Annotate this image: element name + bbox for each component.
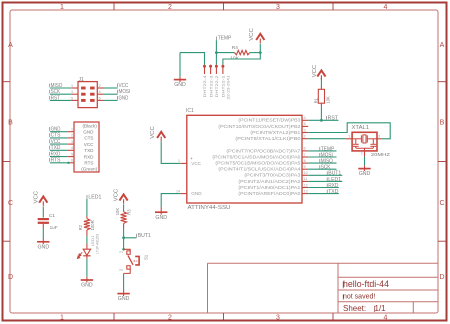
svg-text:R1: R1 [313,97,318,103]
svg-text:12: 12 [304,183,308,187]
svg-text:C1: C1 [49,213,55,219]
wire VCC to IC1 pin1 [161,141,180,163]
svg-text:VCC: VCC [191,161,201,166]
svg-text:BUT1: BUT1 [328,171,341,177]
svg-text:1: 1 [71,84,73,88]
svg-text:MOSI: MOSI [119,89,131,95]
IC1 right pin numbers [304,116,308,193]
svg-text:1: 1 [71,128,73,132]
svg-text:2: 2 [168,4,172,11]
svg-text:(Green): (Green) [81,166,97,171]
svg-text:1: 1 [348,135,350,139]
svg-text:TXD: TXD [51,145,61,151]
wire TEMP label to DHT22 pin2 [215,40,217,65]
wire SCK to J1 pin3 [50,93,72,95]
svg-text:(PCINT10/INT0/OC0A/CKOUT)PB2: (PCINT10/INT0/OC0A/CKOUT)PB2 [218,124,301,129]
wire R1 to VCC [320,86,322,89]
svg-text:C: C [439,200,444,207]
svg-text:7: 7 [304,153,306,157]
svg-text:DHT22-2: DHT22-2 [215,75,219,97]
svg-text:VCC: VCC [249,28,255,41]
svg-text:TEMP: TEMP [218,36,232,42]
svg-text:100R: 100R [90,220,95,230]
svg-text:(PCINT7/ICP/OC0B/ADC7)PA7: (PCINT7/ICP/OC0B/ADC7)PA7 [226,148,301,153]
crystal XTAL1 (resonator) [348,125,390,157]
svg-text:RTS: RTS [84,161,93,166]
wire RST to R1 [320,106,322,120]
svg-text:1: 1 [178,159,180,163]
svg-text:3: 3 [276,315,280,322]
svg-text:R2: R2 [78,224,83,230]
frame row letters [8,42,445,281]
svg-text:DHT22-3: DHT22-3 [209,75,213,97]
svg-text:(PCINT5/OC1B/MISO/DO/ADC5)PA5: (PCINT5/OC1B/MISO/DO/ADC5)PA5 [215,161,301,166]
svg-text:RXD: RXD [328,183,338,189]
svg-text:VCC: VCC [34,191,40,204]
svg-text:1: 1 [60,315,64,322]
svg-text:22-23-2041: 22-23-2041 [227,75,231,99]
resistor R2 [78,219,95,231]
svg-text:LED1: LED1 [88,194,101,200]
svg-text:LED1: LED1 [328,177,341,183]
net label MISO [320,159,333,165]
svg-text:3: 3 [71,90,73,94]
J1 pin numbers [71,84,101,100]
net label VCC (FTDI) [50,139,61,145]
capacitor C1 [38,213,58,230]
svg-text:4: 4 [384,4,388,11]
svg-text:(Black): (Black) [83,124,98,129]
supply VCC (DHT22) [249,28,264,43]
svg-text:RTS: RTS [51,158,61,164]
ground (S1) [123,291,125,297]
supply VCC (IC1 pin1) [150,126,166,141]
net label LED1 (top) [87,194,102,200]
ground (C1) [42,239,44,245]
wire IC1 pin14 to ground [161,194,180,208]
svg-text:11: 11 [304,177,308,181]
svg-text:2: 2 [71,134,73,138]
IC1 right pin stubs [302,120,308,193]
supply VCC (R1) [312,65,325,80]
svg-text:4: 4 [71,146,73,150]
svg-text:1uF: 1uF [50,225,58,230]
net label BUT1 [327,171,341,177]
net label TEMP (top) [216,36,231,42]
wire RTS to FTDI pin 6 [50,162,68,164]
svg-text:(PCINT1/AIN0/ADC1)PA1: (PCINT1/AIN0/ADC1)PA1 [238,185,301,190]
svg-text:3: 3 [71,140,73,144]
wire GND to DHT22 pin4 [180,53,205,65]
wire junction to R4 [216,52,234,54]
svg-text:(PCINT4/T1/SCL/USCK/ADC4)PA4: (PCINT4/T1/SCL/USCK/ADC4)PA4 [218,167,301,172]
svg-text:ATTINY44-SSU: ATTINY44-SSU [188,205,231,211]
svg-text:4: 4 [99,90,101,94]
supply VCC (C1) [34,191,48,206]
svg-text:A: A [440,42,445,49]
wire J1 pin4 to MOSI label [97,93,103,95]
svg-text:1: 1 [60,4,64,11]
svg-text:GND: GND [155,215,167,221]
svg-text:2: 2 [99,84,101,88]
wire LED1 to ground [86,256,88,259]
svg-text:3: 3 [378,135,380,139]
svg-text:4: 4 [384,315,388,322]
ground (DHT22) [179,53,181,77]
svg-text:SCK: SCK [321,165,331,171]
wire MISO net [308,162,336,164]
wire VCC to DHT22 pin1 [223,53,260,65]
net label MOSI (J1) [118,89,131,95]
resistor R1 [313,89,330,103]
resistor R4 [230,45,249,61]
svg-text:+: + [190,156,193,161]
svg-text:5: 5 [71,152,73,156]
svg-text:10: 10 [304,171,308,175]
supply VCC (R3) [113,189,127,204]
svg-text:9: 9 [304,165,306,169]
wire VCC to R3 [123,204,125,212]
svg-text:GND: GND [191,191,202,196]
frame column ticks bottom [114,313,333,321]
wire BUT1 label stub [124,237,137,239]
svg-text:SCK: SCK [51,89,61,95]
junction TEMP/R4 [215,51,218,54]
svg-text:2: 2 [304,135,306,139]
svg-text:hello-ftdi-44: hello-ftdi-44 [343,279,389,289]
wire TXD net [308,193,339,195]
wire LED1 net [308,180,342,182]
wire VCC to C1 [42,206,44,217]
svg-text:R4: R4 [232,45,238,51]
svg-text:3: 3 [276,4,280,11]
frame column ticks top [114,3,333,11]
net label LED1 [327,177,341,183]
net label SCK [320,165,331,171]
wire SCK net [308,168,336,170]
wire resonator pin2 to ground [364,151,366,157]
svg-text:2: 2 [168,315,172,322]
ground (LED1) [86,277,88,283]
svg-text:TXD: TXD [84,148,94,153]
IC1 pin 14 stub [180,193,187,195]
wire VCC to FTDI pin 3 [50,143,68,145]
net label BUT1 [137,233,151,239]
wire RXD to FTDI pin 5 [50,156,68,158]
svg-text:A: A [8,42,13,49]
svg-text:TEMP: TEMP [321,146,335,152]
svg-text:10K: 10K [230,55,239,61]
LED LED1 [77,234,99,259]
op-amp/IC U1: IC1 ATTINY44-SSU box [186,108,302,211]
svg-text:GND: GND [119,95,129,101]
IC1 left pin texts [191,161,202,196]
svg-text:S1: S1 [144,254,149,260]
svg-text:B: B [8,119,13,126]
svg-text:MISO: MISO [321,159,333,165]
wire LED1 label to R2 [86,199,88,216]
wire BUT1 net [308,174,342,176]
svg-text:5: 5 [71,96,73,100]
svg-text:VCC: VCC [84,142,94,147]
wire PB0 to resonator left pin [308,138,346,140]
wire TXD to FTDI pin 4 [50,149,68,151]
svg-text:RXD: RXD [84,154,94,159]
svg-text:VCC: VCC [312,65,318,78]
net label TEMP [320,146,335,152]
wire RST net [308,119,338,121]
svg-text:13: 13 [304,189,308,193]
wire J1 pin6 to GND label [97,99,103,101]
svg-text:GND: GND [118,296,130,302]
junction BUT1 [122,236,125,239]
svg-text:P1: P1 [119,250,123,254]
junction at FTDI RTS pin [67,162,69,164]
svg-text:IC1: IC1 [186,108,194,114]
wire R2 to LED1 [86,230,88,236]
svg-text:DHT22-1: DHT22-1 [222,75,226,97]
svg-text:5: 5 [304,122,306,126]
svg-text:GND: GND [359,171,371,177]
net label RST [327,115,339,121]
connector DHT22 22-23-2041 [203,65,231,100]
IC1 right pin names [212,118,301,196]
svg-text:VCC: VCC [150,126,156,139]
svg-text:(PCINT6/OC1A/SDA/MOSI/ADC6)PA6: (PCINT6/OC1A/SDA/MOSI/ADC6)PA6 [212,154,301,159]
net label TXD [327,189,338,195]
frame row ticks right [438,82,447,242]
svg-text:(PCINT0/AREF/ADC0)PA0: (PCINT0/AREF/ADC0)PA0 [238,191,301,196]
svg-text:P2: P2 [119,268,123,272]
net label GND (J1) [118,95,129,101]
svg-text:D: D [439,274,444,281]
frame row ticks left [3,82,11,242]
svg-text:Sheet:: Sheet: [343,304,366,313]
net label SCK [50,89,61,95]
svg-text:XTAL1: XTAL1 [352,125,370,131]
wire MOSI net [308,156,336,158]
svg-text:TXD: TXD [328,189,338,195]
wire RXD net [308,187,339,189]
svg-text:DHT22-4: DHT22-4 [203,75,207,97]
net label VCC (J1) [118,83,129,89]
svg-text:R3: R3 [127,209,132,215]
svg-text:GND: GND [174,82,186,88]
svg-text:(PCINT8/XTAL1/CLKI)PB0: (PCINT8/XTAL1/CLKI)PB0 [235,136,301,141]
switch S1 (button) [119,248,148,273]
connector FTDI 6-pin [74,122,99,172]
wire R3 to button [123,223,125,228]
svg-text:8: 8 [304,159,306,163]
svg-text:VCC: VCC [51,139,61,145]
wire S1 to ground [123,273,125,290]
svg-text:6: 6 [71,159,73,163]
svg-text:not saved!: not saved! [343,294,375,301]
net label GND (FTDI) [50,126,61,132]
FTDI pin numbers [71,128,73,163]
net label RTS (FTDI) [50,158,61,164]
wire GND to FTDI pin 1 [50,131,68,133]
svg-text:14: 14 [176,189,180,193]
svg-text:GND: GND [51,126,61,132]
wire PB1 to resonator right pin [308,123,390,139]
resistor R3 [115,208,132,224]
svg-text:10K: 10K [325,96,330,104]
svg-text:D: D [8,274,13,281]
title block outline [208,263,439,313]
ground (IC1) [160,207,162,214]
svg-text:RST: RST [51,95,61,101]
connector J1 ISP 2x3 header [78,77,97,108]
svg-text:20MHZ: 20MHZ [371,152,390,157]
wire CTS to FTDI pin 2 [50,137,68,139]
svg-text:(PCINT11/RESET/DW)PB3: (PCINT11/RESET/DW)PB3 [238,118,301,123]
ground (XTAL1) [364,165,366,171]
svg-text:4: 4 [304,116,306,120]
svg-text:VCC: VCC [119,83,129,89]
svg-text:GND: GND [83,129,94,134]
svg-text:6: 6 [304,147,306,151]
svg-text:RST: RST [328,115,339,121]
svg-text:6: 6 [99,96,101,100]
svg-text:MISO: MISO [51,83,63,89]
svg-text:RXD: RXD [51,151,61,157]
net label TXD (FTDI) [50,145,61,151]
svg-text:GND: GND [81,283,93,289]
svg-text:VCC: VCC [113,189,119,202]
svg-text:(PCINT2/AIN1/ADC2)PA2: (PCINT2/AIN1/ADC2)PA2 [238,179,301,184]
svg-text:10K: 10K [115,208,120,216]
svg-text:LTUP-A81208: LTUP-A81208 [95,234,99,254]
net label RXD [327,183,338,189]
net label CTS (FTDI) [50,133,61,139]
net label MOSI [320,152,333,158]
junction VCC/DHT22 [259,51,262,54]
junction RST [320,119,323,122]
svg-text:MOSI: MOSI [321,152,333,158]
svg-text:3: 3 [304,128,306,132]
svg-text:BUT1: BUT1 [138,233,151,239]
svg-text:2: 2 [361,152,363,156]
svg-text:1/1: 1/1 [375,304,387,313]
wire MISO to J1 pin1 [50,87,72,89]
svg-text:CTS: CTS [84,136,93,141]
frame column numbers [60,4,388,321]
IC1 pin 1 stub [180,162,187,164]
wire TEMP net [308,150,336,152]
wire J1 pin2 to VCC label [97,87,103,89]
svg-text:C: C [8,200,13,207]
svg-text:CTS: CTS [51,133,61,139]
net label MISO [50,83,63,89]
wire R4 to VCC [250,52,261,54]
svg-text:GND: GND [38,244,50,250]
net label RXD (FTDI) [50,151,61,157]
svg-text:B: B [440,119,445,126]
wire RST to J1 pin5 [50,99,72,101]
svg-text:(PCINT9/XTAL2)PB1: (PCINT9/XTAL2)PB1 [250,130,301,135]
svg-text:(PCINT3/T0/ADC3)PA3: (PCINT3/T0/ADC3)PA3 [244,173,301,178]
wire C1 to ground [42,224,44,228]
net label RST (J1) [50,95,61,101]
